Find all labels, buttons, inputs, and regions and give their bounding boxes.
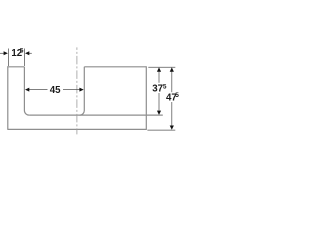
svg-text:37: 37 — [152, 84, 163, 95]
svg-text:5: 5 — [163, 84, 167, 91]
tab top edge — [7, 66, 24, 68]
bottom extension — [147, 129, 175, 131]
svg-text:5: 5 — [20, 48, 24, 55]
arrow 45 left (points left) — [25, 88, 29, 92]
right extension lines — [147, 67, 175, 130]
cutout bottom + interior line + extension — [29, 114, 163, 116]
svg-text:45: 45 — [50, 85, 61, 96]
extension line left — [7, 49, 9, 67]
arrow 45 right (points right) — [79, 88, 83, 92]
right edge — [145, 66, 147, 130]
extension line right — [24, 49, 26, 67]
dimension 45 — [29, 89, 80, 91]
left tail — [0, 52, 4, 54]
arrow 37.5 up — [157, 67, 161, 71]
arrow 12.5 right (points left) — [25, 51, 29, 55]
arrow 37.5 down — [157, 111, 161, 115]
arrow 47.5 up — [170, 67, 174, 71]
left edge — [7, 66, 9, 129]
arrow 12.5 left (points right) — [4, 51, 8, 55]
outline: washtop plan view, gray — [7, 66, 162, 130]
right section top edge — [84, 66, 146, 68]
cutout right wall — [80, 67, 85, 115]
right tail — [28, 52, 32, 54]
dimension 47.5 — [171, 71, 173, 127]
dimension 12.5 — [0, 49, 32, 67]
svg-text:5: 5 — [175, 92, 179, 99]
arrow 47.5 down — [170, 126, 174, 130]
top extension — [148, 66, 175, 68]
centerline dash-dot — [76, 47, 78, 134]
bottom edge — [7, 128, 146, 130]
cutout left wall — [24, 67, 29, 115]
dimension 37.5 — [158, 71, 160, 112]
